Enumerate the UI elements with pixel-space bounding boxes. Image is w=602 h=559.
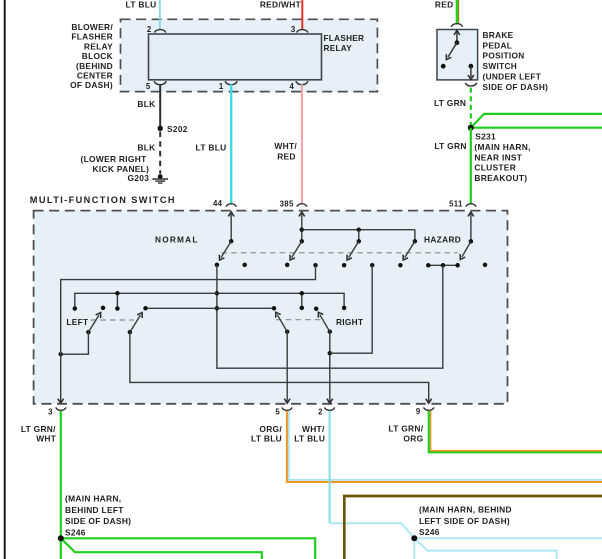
- svg-text:5: 5: [275, 408, 280, 417]
- wire green continues down: [60, 538, 62, 559]
- contact node 344: [342, 263, 347, 268]
- svg-text:LT BLU: LT BLU: [126, 0, 157, 10]
- wire LT GRN/ORG from pin 9 to right edge: [429, 411, 602, 452]
- brake switch output terminal arrow: [469, 64, 474, 69]
- svg-text:4: 4: [290, 82, 295, 91]
- svg-text:LEFT SIDE OF DASH): LEFT SIDE OF DASH): [419, 516, 510, 526]
- page border line (left edge of diagram): [4, 0, 6, 559]
- bus wire 2 (lower horizontal bus): [146, 307, 275, 309]
- svg-text:SIDE OF DASH): SIDE OF DASH): [65, 516, 131, 526]
- svg-text:LT GRN/: LT GRN/: [388, 424, 423, 434]
- svg-text:S246: S246: [419, 527, 440, 537]
- pin 4 of flasher relay (connector arc): [296, 81, 308, 84]
- junction node on bus1: [215, 291, 220, 296]
- svg-text:BRAKE: BRAKE: [483, 30, 514, 40]
- pin 2 of MFS (connector arc): [324, 407, 334, 410]
- multi-function switch block (dashed box): [34, 211, 508, 404]
- contact node 400: [398, 263, 403, 268]
- contact node (pin44 normal contact): [215, 263, 220, 268]
- svg-text:CENTER: CENTER: [77, 71, 113, 81]
- svg-text:RED/WHT: RED/WHT: [260, 0, 302, 10]
- wire cyan branch right: [414, 537, 602, 539]
- svg-text:385: 385: [280, 200, 294, 209]
- wire LT BLU from relay pin 1 to MFS pin 44: [230, 84, 232, 203]
- svg-text:(MAIN HARN,: (MAIN HARN,: [474, 142, 530, 152]
- blower/flasher relay block (dashed box): [121, 19, 378, 91]
- svg-text:511: 511: [449, 199, 463, 208]
- svg-text:RED: RED: [435, 0, 454, 10]
- svg-text:44: 44: [213, 199, 223, 208]
- wire LT GRN from S231 to MFS pin 511: [470, 128, 472, 204]
- wire LT GRN/WHT from pin 3 to S246: [60, 411, 62, 538]
- right switch pole 2: [328, 329, 333, 334]
- svg-text:NEAR INST: NEAR INST: [474, 152, 522, 162]
- brake switch blade (open): [448, 43, 457, 57]
- wire right pole2 to pin 2: [329, 332, 331, 402]
- pin 3 of MFS (connector arc): [56, 407, 66, 410]
- left switch pole 1: [86, 330, 91, 335]
- wire BLK from relay pin 5: [159, 84, 161, 128]
- svg-text:MULTI-FUNCTION SWITCH: MULTI-FUNCTION SWITCH: [30, 195, 176, 205]
- pin 44 of MFS (connector arc): [226, 204, 236, 207]
- wire ORG/LT BLU from pin 5 (orange+lt blue pair): [287, 411, 602, 482]
- mechanical coupling dashed line (normal/hazard): [222, 252, 458, 254]
- svg-text:BLK: BLK: [137, 99, 155, 109]
- svg-text:(MAIN HARN, BEHIND: (MAIN HARN, BEHIND: [419, 504, 512, 514]
- mechanical coupling dashed line (left): [91, 319, 135, 321]
- svg-text:LT GRN: LT GRN: [434, 141, 466, 151]
- pin 2 of flasher relay (connector arc): [155, 30, 166, 33]
- splice S246 (left): [58, 535, 64, 541]
- wire RED/WHT to flasher relay pin 3: [301, 0, 303, 29]
- pin 385 of MFS (connector arc): [297, 204, 307, 207]
- pin 5 of flasher relay (connector arc): [154, 81, 166, 84]
- svg-text:1: 1: [219, 82, 224, 91]
- switch blade 385-b: [349, 241, 359, 257]
- svg-text:LT BLU: LT BLU: [196, 143, 227, 153]
- switch blade 385-a: [292, 241, 302, 257]
- svg-text:RED: RED: [277, 151, 296, 161]
- wire TAN/brown harness right-bottom: [344, 496, 602, 559]
- wire cyan branch diagonal lower: [414, 538, 556, 559]
- svg-text:LT BLU: LT BLU: [251, 433, 282, 443]
- wire LT BLU to flasher relay pin 2: [159, 0, 161, 29]
- brake pedal position switch box: [437, 30, 478, 80]
- svg-text:BEHIND LEFT: BEHIND LEFT: [65, 505, 124, 515]
- ground G203: [158, 174, 163, 179]
- contact node 372: [370, 263, 375, 268]
- wire LT GRN branch upper to right edge: [471, 114, 602, 128]
- svg-text:3: 3: [48, 408, 53, 417]
- svg-text:RELAY: RELAY: [84, 41, 113, 51]
- wire contact-216 net down and over to hazard contacts: [217, 265, 443, 368]
- svg-text:PEDAL: PEDAL: [483, 40, 513, 50]
- svg-text:G203: G203: [127, 173, 149, 183]
- brake switch top connector arc: [451, 24, 463, 27]
- svg-text:BLOWER/: BLOWER/: [71, 22, 113, 32]
- svg-text:NORMAL: NORMAL: [155, 235, 199, 245]
- bus1 drop at 117: [116, 293, 118, 308]
- svg-text:FLASHER: FLASHER: [324, 34, 365, 43]
- wire green branch diagonal lower: [61, 538, 262, 559]
- junction node on bus2: [215, 306, 220, 311]
- bus wire 1 (upper horizontal bus): [75, 293, 344, 308]
- splice S202: [158, 126, 163, 131]
- svg-text:RELAY: RELAY: [324, 44, 353, 53]
- svg-text:5: 5: [146, 82, 151, 91]
- switch blade from pin 44: [221, 241, 231, 257]
- hazard switch blade: [462, 241, 471, 257]
- wire contact-315 net to pin 3: [61, 265, 316, 401]
- svg-text:S246: S246: [65, 527, 86, 537]
- splice S231: [468, 125, 474, 131]
- wire WHT/LT BLU from pin 2 to S246: [329, 411, 331, 523]
- svg-text:S202: S202: [167, 124, 188, 134]
- pin 5 of MFS (connector arc): [282, 407, 292, 410]
- splice S246 (right): [411, 535, 417, 541]
- svg-text:OF DASH): OF DASH): [70, 80, 113, 90]
- switch blade 385-c: [405, 241, 415, 257]
- open contact node (hazard): [483, 263, 488, 268]
- contact node 316: [314, 306, 319, 311]
- pin 385 terminal arrow and pivots: [301, 214, 303, 242]
- svg-text:SIDE OF DASH): SIDE OF DASH): [483, 82, 549, 92]
- contact node 287: [285, 263, 290, 268]
- wire right pole1 to pin 5: [286, 332, 288, 402]
- svg-text:BREAKOUT): BREAKOUT): [474, 173, 527, 183]
- svg-text:(UNDER LEFT: (UNDER LEFT: [483, 72, 542, 82]
- svg-text:BLK: BLK: [137, 143, 155, 153]
- svg-text:3: 3: [291, 25, 296, 34]
- svg-text:POSITION: POSITION: [483, 51, 525, 61]
- wire left pole2 to pin 9: [130, 332, 429, 401]
- wire BLK dashed to ground: [159, 132, 161, 174]
- wire green branch right then down: [61, 538, 315, 559]
- brake switch common terminal arrow: [456, 32, 458, 43]
- open contact node: [242, 263, 247, 268]
- wire WHT/RED from relay pin 4 to MFS pin 385: [301, 84, 303, 203]
- svg-text:2: 2: [318, 408, 323, 417]
- hazard contact group: [428, 264, 457, 266]
- svg-text:ORG: ORG: [403, 433, 423, 443]
- left switch pole 2: [128, 330, 133, 335]
- pin 44 terminal arrow and pivot: [230, 214, 232, 241]
- junction node on pin3 wire: [58, 352, 63, 357]
- wire RED to brake pedal position switch: [456, 0, 458, 24]
- junction node pin2/372 branch: [328, 351, 333, 356]
- svg-text:2: 2: [147, 25, 152, 34]
- svg-text:(LOWER RIGHT: (LOWER RIGHT: [81, 154, 148, 164]
- brake switch bottom connector arc: [465, 83, 477, 86]
- wire cyan continues down: [413, 538, 415, 559]
- wire LT GRN dashed from brake switch: [470, 88, 472, 125]
- svg-text:HAZARD: HAZARD: [424, 234, 461, 244]
- svg-text:RIGHT: RIGHT: [336, 317, 363, 327]
- bus1 drop at 301: [301, 293, 303, 308]
- svg-text:LEFT: LEFT: [66, 317, 88, 327]
- pin 1 of flasher relay (connector arc): [225, 81, 237, 84]
- svg-text:BLOCK: BLOCK: [82, 51, 113, 61]
- svg-text:(MAIN HARN,: (MAIN HARN,: [65, 493, 121, 503]
- contact node 315 (to pin 3): [313, 263, 318, 268]
- svg-text:LT BLU: LT BLU: [294, 433, 325, 443]
- svg-text:S231: S231: [475, 132, 496, 142]
- svg-text:CLUSTER: CLUSTER: [474, 163, 516, 173]
- mechanical coupling dashed line (right): [276, 319, 322, 321]
- flasher relay box U1: [149, 34, 322, 80]
- right switch pole 1: [285, 329, 290, 334]
- pin 511 hazard terminal arrow and pivot: [470, 214, 472, 242]
- pin 3 of flasher relay (connector arc): [297, 30, 308, 33]
- svg-text:SWITCH: SWITCH: [483, 61, 518, 71]
- wire LT GRN branch lower to right edge: [471, 127, 602, 129]
- svg-text:(BEHIND: (BEHIND: [76, 61, 113, 71]
- svg-text:FLASHER: FLASHER: [71, 32, 113, 42]
- svg-text:9: 9: [416, 407, 421, 416]
- svg-text:LT GRN: LT GRN: [434, 98, 466, 108]
- wire contact-372 branch: [330, 265, 372, 353]
- svg-text:WHT/: WHT/: [274, 141, 297, 151]
- pin 9 of MFS (connector arc): [424, 407, 434, 410]
- svg-text:WHT: WHT: [36, 433, 57, 443]
- pin 511 of MFS (connector arc): [466, 204, 476, 207]
